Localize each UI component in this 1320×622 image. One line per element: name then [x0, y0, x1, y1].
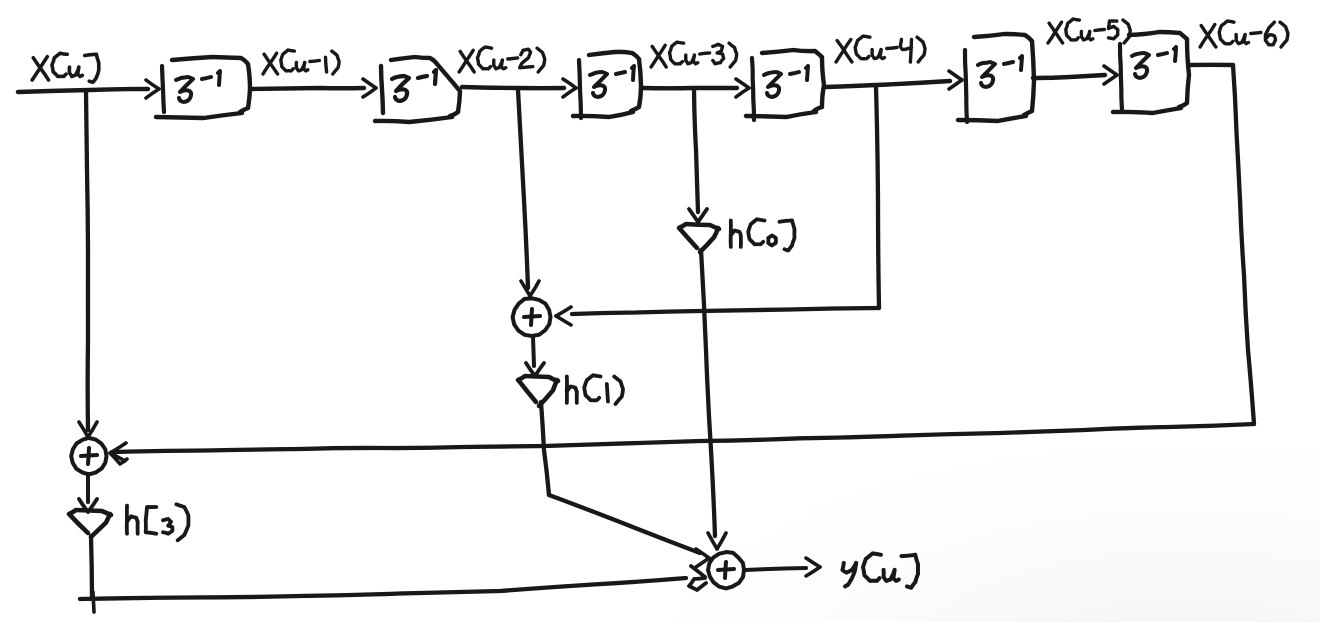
wire x(n-4) horizontal to A1: [572, 308, 879, 314]
arrowhead into A1 top: [521, 281, 539, 296]
delay block Z1 left wall: [162, 66, 164, 112]
arrowhead into Z4: [736, 79, 749, 97]
label z^-1 in Z1: [176, 71, 220, 102]
wire Z1 to Z2: [253, 88, 364, 89]
delay block Z4 left wall: [752, 58, 754, 120]
label x(n-4): [836, 36, 925, 62]
delay block Z3 left wall: [579, 60, 581, 118]
label x(n-2): [459, 47, 545, 72]
arrowhead into h[0]: [689, 209, 707, 222]
delay block Z6 left wall: [1120, 44, 1122, 110]
label z^-1 in Z6: [1132, 47, 1176, 78]
arrowhead into Z2: [363, 79, 376, 97]
label x(n-3): [651, 42, 737, 67]
arrowhead into left adder (curl): [110, 443, 127, 464]
wire: input x[n] main line: [18, 89, 148, 92]
adder A3 (output) circle with plus: [708, 552, 744, 588]
arrowhead into Z1: [146, 80, 159, 98]
arrowhead bottom line into A3 (curl): [689, 566, 706, 590]
wire A2 to h[3] multiplier: [86, 474, 90, 502]
wire h[1] diagonal to A3: [549, 495, 700, 553]
arrowhead into Z5: [949, 71, 962, 89]
label h[1]: [567, 375, 623, 404]
wire x[n] tap down: [86, 91, 88, 430]
arrowhead into h[3]: [79, 499, 97, 512]
multiplier h[1] triangle: [518, 376, 558, 406]
wire x(n-2) tap down to A1: [518, 90, 528, 288]
wire x(n-3) tap down to h[0]: [694, 90, 698, 212]
arrowhead into A3 top: [708, 533, 726, 549]
label h[3]: [127, 504, 189, 540]
label x(n-6): [1200, 21, 1288, 47]
wire A1 to h[1] multiplier: [533, 337, 534, 366]
wire h[1] down then diagonal to A3: [541, 402, 549, 495]
delay block Z3 box: [573, 52, 641, 117]
delay block Z2 left wall: [381, 66, 383, 113]
delay block Z6 box: [1113, 32, 1189, 113]
delay block Z1 box: [156, 57, 250, 118]
delay block Z2 box: [375, 57, 460, 122]
wire h[3] down to bottom line: [91, 536, 92, 598]
wire h[0] down to A3: [701, 250, 715, 536]
arrowhead into h[1]: [526, 363, 544, 376]
arrowhead into Z6: [1104, 66, 1117, 84]
label x(n-1): [263, 50, 339, 74]
label z^-1 in Z4: [764, 66, 808, 97]
wire Z4 to Z5: [826, 81, 950, 87]
wire Z6 output to right edge corner: [1190, 63, 1233, 68]
arrowhead into A1 right: [556, 307, 571, 325]
label z^-1 in Z2: [392, 70, 436, 101]
wire right vertical down (x[n-6] feedback): [1233, 65, 1254, 424]
delay block Z5 left wall: [965, 50, 967, 122]
node: bottom-left junction tick: [93, 592, 94, 612]
adder A2 (left) circle with plus: [71, 438, 106, 475]
arrowhead output y[n]: [806, 558, 820, 576]
wire A3 output: [745, 568, 806, 570]
wire long horizontal to left adder: [112, 424, 1254, 452]
arrowhead into Z3: [563, 79, 576, 97]
wire Z3 to Z4: [643, 86, 737, 91]
multiplier h[0] triangle: [679, 224, 719, 252]
arrowhead into left adder top: [79, 422, 97, 437]
adder A1 (middle) circle with plus: [513, 298, 551, 336]
label x(n-5): [1048, 19, 1130, 43]
label z^-1 in Z3: [590, 66, 634, 97]
label z^-1 in Z5: [978, 56, 1022, 87]
delay block Z4 box: [746, 50, 824, 117]
arrowhead diag into A3: [696, 549, 709, 567]
wire bottom line to output adder: [80, 578, 686, 599]
label h[0]: [731, 219, 795, 250]
label y[n]: [842, 553, 918, 587]
delay block Z5 box: [958, 34, 1034, 121]
wire Z5 to Z6: [1033, 75, 1105, 78]
label x[n]: [32, 53, 99, 82]
wire x(n-4) tap down: [876, 87, 879, 308]
wire Z2 to Z3: [462, 87, 564, 88]
multiplier h[3] triangle: [69, 510, 111, 537]
